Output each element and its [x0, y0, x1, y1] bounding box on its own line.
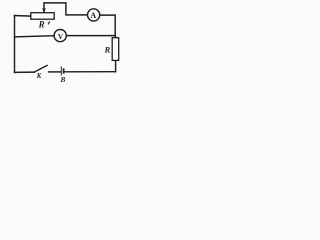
svg-text:R: R — [104, 45, 111, 55]
svg-text:K: K — [36, 73, 42, 80]
svg-text:R: R — [38, 19, 45, 29]
svg-text:A: A — [90, 11, 96, 20]
wire stub node to resistor R top — [114, 36, 116, 38]
wire below resistor R to bottom run — [115, 60, 117, 71]
battery B short thick plate — [63, 68, 65, 73]
wire middle run from left vertical to voltmeter — [15, 36, 55, 37]
wire top-left horizontal to R' left terminal — [15, 15, 31, 18]
wire switch pivot to bottom-left corner — [15, 71, 35, 73]
svg-text:B: B — [60, 76, 66, 84]
label R prime mark — [48, 22, 49, 24]
resistor R body — [112, 38, 119, 61]
svg-text:V: V — [58, 32, 64, 41]
wire battery to switch right contact — [49, 71, 61, 73]
voltmeter V — [54, 29, 66, 41]
rheostat R' body — [31, 13, 54, 20]
ammeter A — [88, 9, 100, 21]
wire ammeter right to right-side vertical down to node — [100, 15, 115, 35]
wire voltmeter to right node — [66, 35, 115, 37]
wire bottom run right corner to battery — [65, 71, 116, 73]
switch K blade — [34, 65, 47, 72]
wire slider top run over to ammeter row — [44, 3, 88, 15]
wire left vertical — [14, 15, 16, 72]
rheostat R' slider arrowhead — [42, 8, 46, 13]
battery B long thin plate — [60, 66, 62, 75]
